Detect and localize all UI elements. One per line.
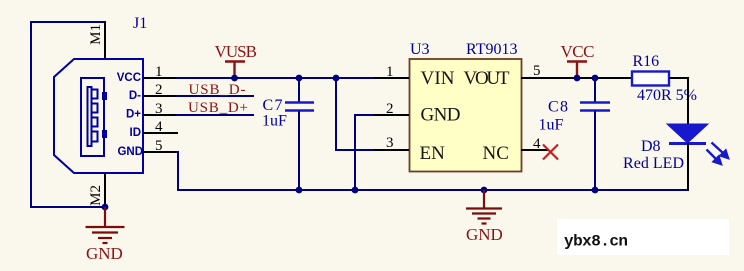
IC U3 body [410, 59, 522, 172]
svg-text:1uF: 1uF [539, 117, 564, 134]
svg-text:USB_D-: USB_D- [189, 82, 246, 98]
capacitor C7 [285, 78, 314, 190]
power symbol VCC [567, 62, 587, 79]
U3 pin 5 (VOUT) stub [521, 77, 556, 79]
U3 pin 3 (EN) stub [374, 149, 409, 151]
J1 pin 3 stub [143, 114, 177, 116]
LED D8 [667, 124, 728, 164]
svg-text:VCC: VCC [561, 42, 595, 61]
U3 pin 1 (VIN) stub [374, 77, 409, 79]
svg-text:3: 3 [386, 135, 394, 151]
LED arrows [707, 143, 729, 165]
svg-text:RT9013: RT9013 [466, 41, 517, 58]
svg-text:GND: GND [86, 244, 123, 263]
svg-text:ybx8.cn: ybx8.cn [564, 233, 628, 251]
svg-text:ID: ID [130, 127, 142, 139]
svg-text:VOUT: VOUT [464, 68, 510, 89]
junction: C7 top [296, 75, 303, 82]
junction: VUSB on VBUS rail [231, 75, 238, 82]
wire: pin3 net stub USB_D+ [176, 114, 254, 116]
svg-text:D-: D- [129, 90, 141, 102]
svg-text:1: 1 [155, 64, 163, 80]
junction: shell ground [102, 204, 109, 211]
pin M1 [104, 21, 106, 59]
svg-text:2: 2 [155, 82, 163, 98]
J1 pin 1 stub [143, 77, 177, 79]
svg-text:EN: EN [420, 143, 446, 164]
junction: main ground symbol on bus [481, 187, 488, 194]
svg-text:USB_D+: USB_D+ [188, 100, 248, 116]
J1 pin 2 stub [143, 95, 177, 97]
svg-text:GND: GND [421, 105, 461, 126]
svg-text:D8: D8 [641, 138, 661, 155]
R16 left pin stub [612, 77, 632, 79]
ground symbol (main) [466, 190, 502, 224]
wire: J1 shell loop (M1 top to M2 bottom) [31, 22, 105, 207]
svg-text:2: 2 [386, 101, 394, 117]
watermark box [557, 219, 729, 255]
no-connect X on pin 4 [543, 145, 558, 160]
wire: EN tie to VIN [336, 78, 375, 150]
svg-text:VIN: VIN [421, 68, 455, 89]
junction: EN tie on VBUS rail [333, 75, 340, 82]
junction: C8 bottom [592, 187, 599, 194]
svg-text:VCC: VCC [117, 72, 141, 84]
wire: GND from J1 pin5 to ground bus [176, 152, 688, 190]
svg-text:NC: NC [483, 143, 509, 164]
svg-text:GND: GND [117, 146, 143, 158]
svg-text:3: 3 [155, 101, 163, 117]
connector J1 body [54, 59, 143, 173]
junction: C7 bottom [296, 187, 303, 194]
U3 pin 4 (NC) stub [521, 149, 549, 151]
wire: U3 GND to ground bus [355, 115, 375, 190]
svg-text:R16: R16 [633, 53, 660, 70]
svg-text:4: 4 [533, 136, 541, 152]
svg-text:J1: J1 [133, 15, 147, 32]
J1 USB receptacle drawing [81, 78, 104, 156]
capacitor C8 [580, 78, 610, 190]
svg-text:4: 4 [155, 119, 163, 135]
J1 pin 5 stub [143, 151, 177, 153]
svg-text:VUSB: VUSB [215, 42, 258, 61]
wire: LED cathode down to ground bus [687, 143, 689, 191]
wire: pin2 net stub USB_D- [176, 95, 254, 97]
wire: VBUS rail from J1 pin1 to U3 VIN [176, 77, 375, 79]
svg-text:1: 1 [386, 64, 394, 80]
power symbol VUSB [225, 62, 245, 79]
svg-text:M1: M1 [88, 24, 104, 45]
svg-text:M2: M2 [88, 185, 104, 206]
svg-text:C7: C7 [263, 97, 283, 114]
pin M2 [104, 173, 106, 207]
junction: C8 top [592, 75, 599, 82]
svg-text:U3: U3 [410, 41, 430, 58]
U3 pin 2 (GND) stub [374, 114, 409, 116]
ground symbol (J1 shell) [86, 207, 125, 243]
svg-text:1uF: 1uF [262, 113, 287, 130]
svg-text:5: 5 [533, 63, 541, 79]
J1 pin 4 stub (ID, n/c) [143, 132, 178, 134]
svg-text:D+: D+ [126, 109, 141, 121]
svg-text:GND: GND [466, 225, 503, 244]
resistor R16 [632, 72, 669, 86]
svg-text:5: 5 [155, 138, 163, 154]
svg-text:Red LED: Red LED [623, 155, 684, 172]
wire: R16 to LED anode [669, 78, 688, 126]
junction: U3 GND on bus [352, 187, 359, 194]
svg-text:C8: C8 [548, 99, 568, 116]
wire: VCC rail from U3 VOUT to R16 [553, 77, 614, 79]
junction: VCC on rail [574, 75, 581, 82]
